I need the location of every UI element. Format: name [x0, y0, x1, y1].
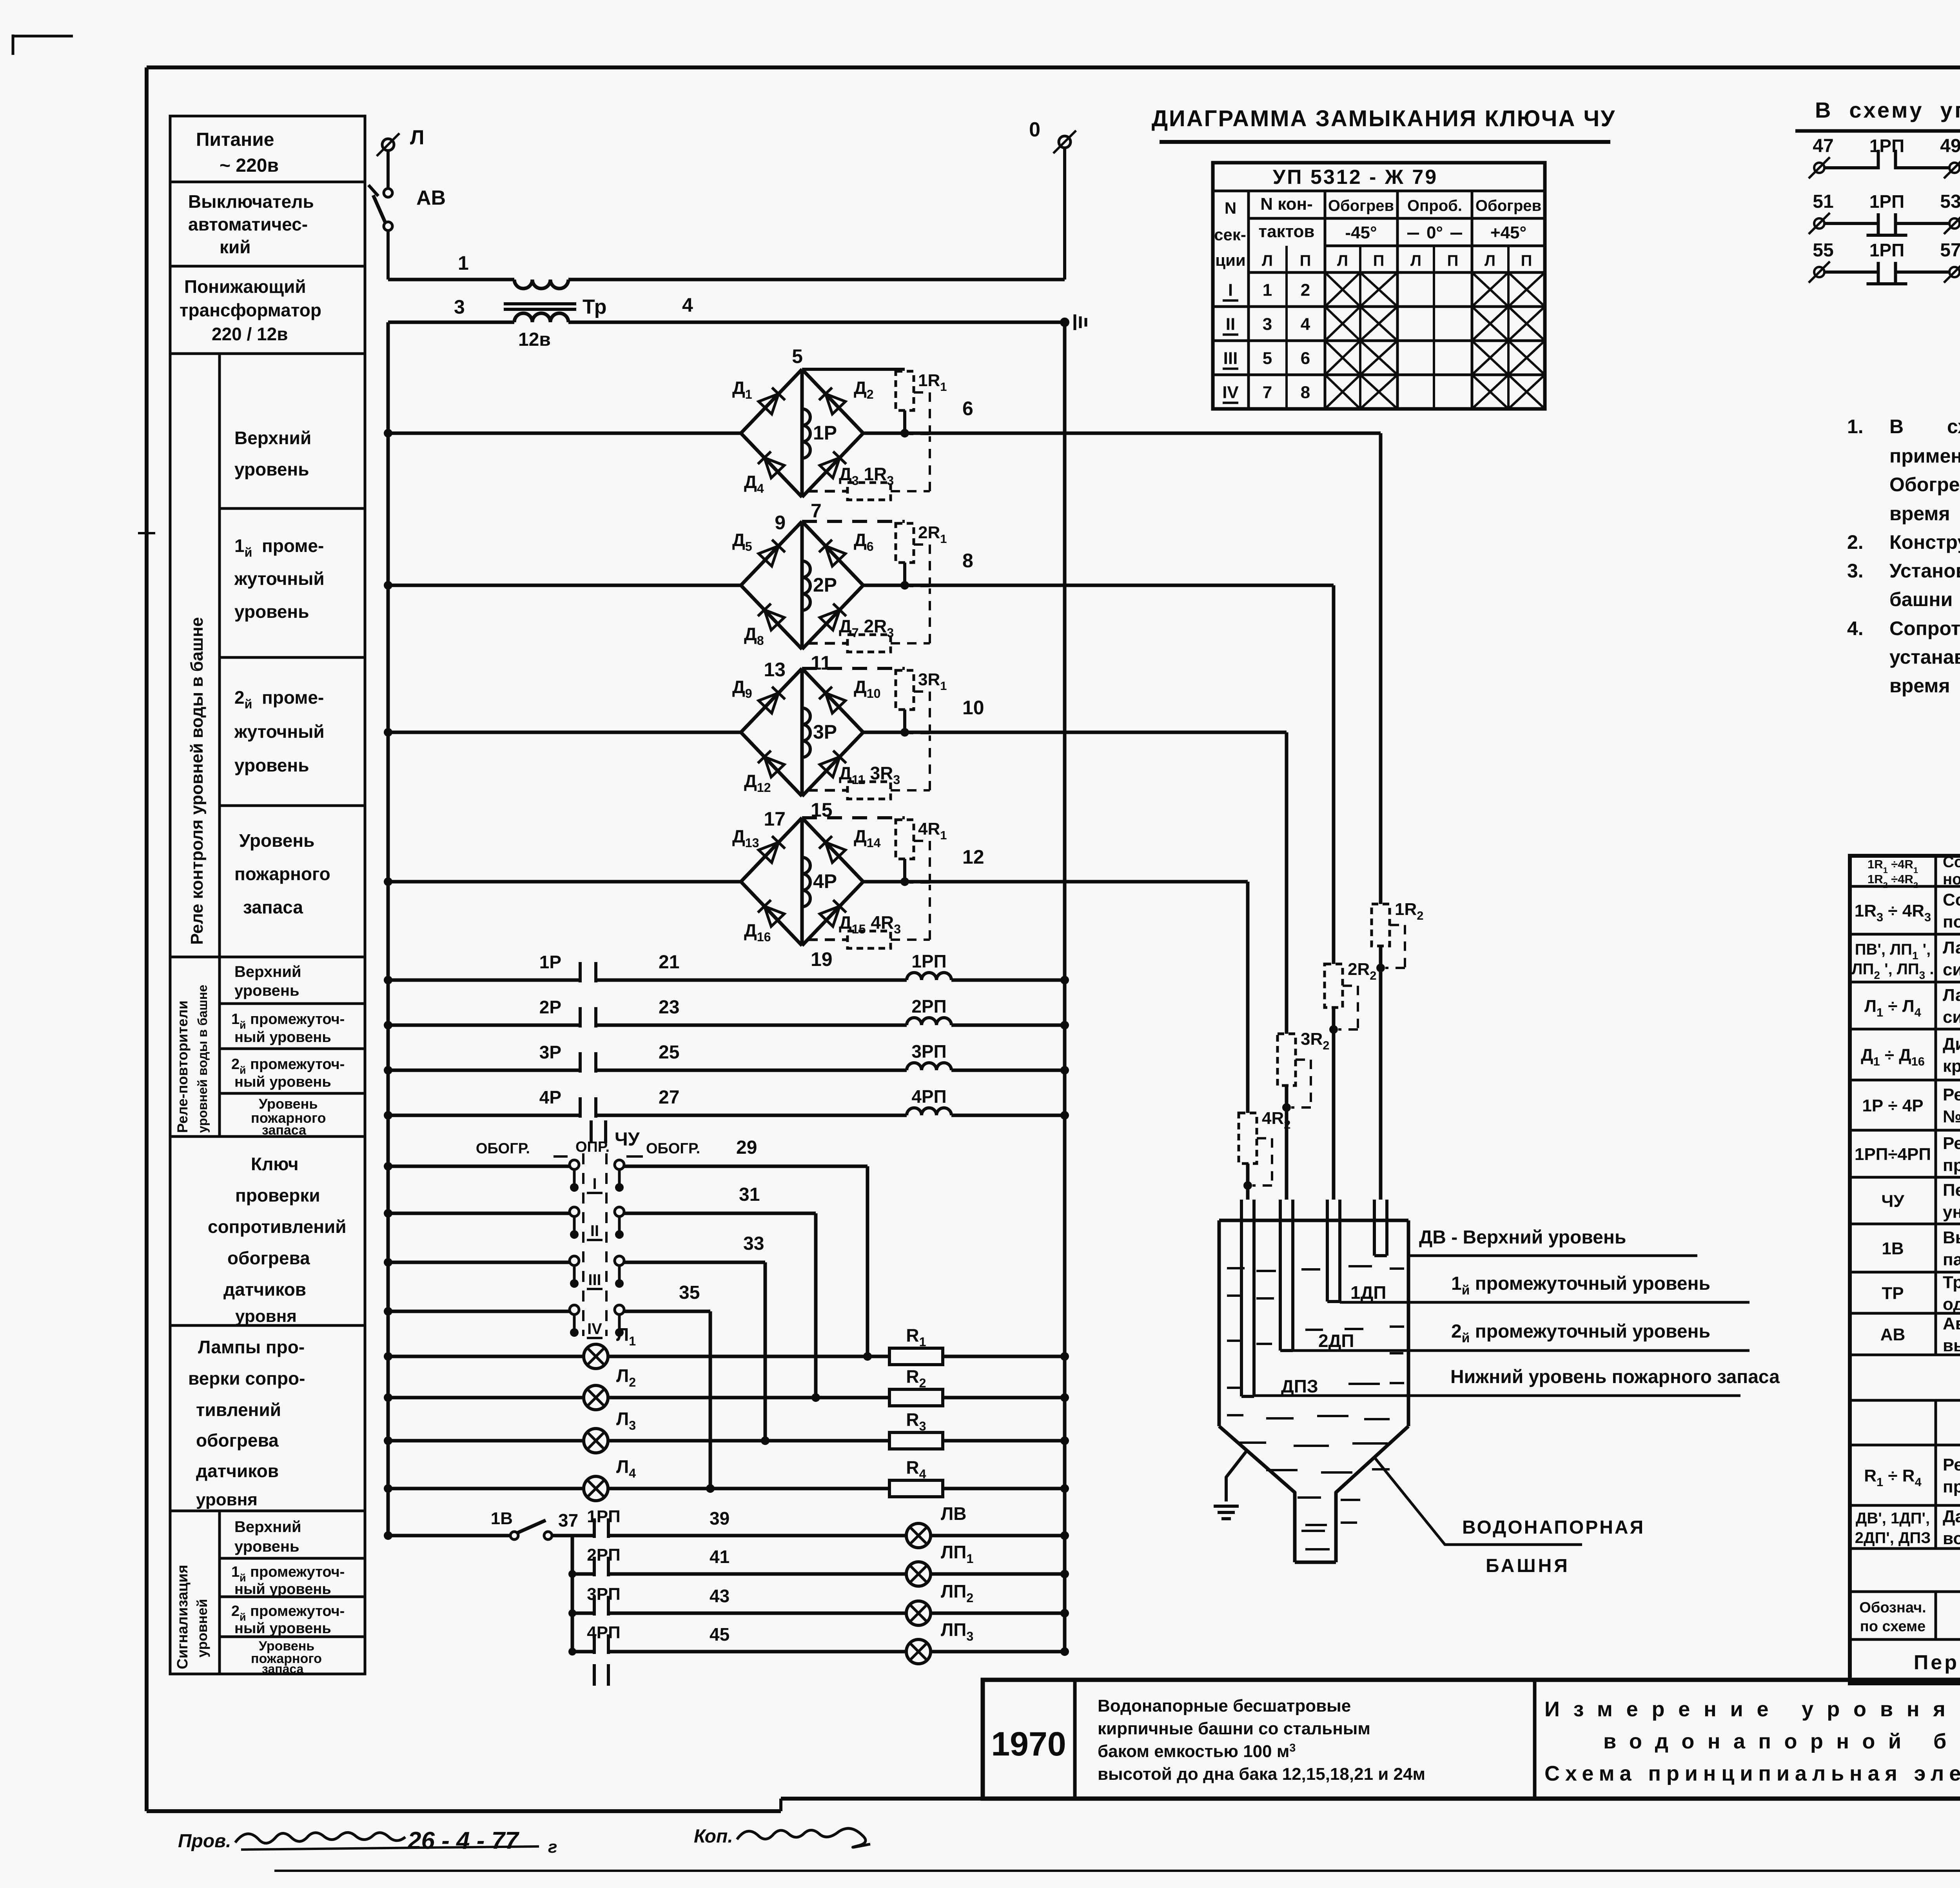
svg-text:11: 11 — [811, 652, 831, 674]
svg-text:трансформатор: трансформатор — [180, 300, 321, 320]
svg-text:1РП: 1РП — [1869, 240, 1904, 260]
svg-text:IV: IV — [1222, 383, 1239, 402]
svg-text:кирпичные башни со стальным: кирпичные башни со стальным — [1098, 1719, 1370, 1738]
svg-text:высотой до дна бака 12‚15‚18‚2: высотой до дна бака 12‚15‚18‚21 и 24м — [1098, 1765, 1425, 1784]
svg-text:1: 1 — [458, 252, 469, 274]
svg-text:обогрева: обогрева — [227, 1248, 310, 1268]
svg-text:2РП: 2РП — [587, 1545, 620, 1565]
svg-text:3.: 3. — [1847, 560, 1864, 582]
svg-text:сек-: сек- — [1214, 225, 1246, 244]
svg-text:Обогрев: Обогрев — [1328, 197, 1394, 214]
svg-text:сигнальная: сигнальная — [1943, 1008, 1960, 1027]
svg-text:49: 49 — [1940, 136, 1960, 156]
svg-text:Лампа: Лампа — [1943, 938, 1960, 957]
svg-text:Трансформатор: Трансформатор — [1943, 1273, 1960, 1292]
svg-text:уровень: уровень — [234, 601, 309, 622]
svg-text:Сопротивление перемен-: Сопротивление перемен- — [1943, 853, 1960, 871]
svg-text:Л: Л — [1485, 252, 1495, 269]
svg-text:3РП: 3РП — [911, 1041, 946, 1062]
svg-text:жуточный: жуточный — [234, 568, 325, 589]
svg-text:Сопротивление: Сопротивление — [1943, 890, 1960, 910]
svg-text:Реле-повторители: Реле-повторители — [174, 1000, 191, 1133]
svg-text:проволочный: проволочный — [1943, 1477, 1960, 1496]
svg-text:АВ: АВ — [1880, 1325, 1906, 1344]
svg-text:Ключ: Ключ — [251, 1154, 299, 1174]
svg-text:4РП: 4РП — [911, 1086, 946, 1107]
svg-text:ный уровень: ный уровень — [234, 1581, 331, 1598]
svg-text:датчиков: датчиков — [223, 1279, 306, 1300]
svg-text:26 - 4 - 77: 26 - 4 - 77 — [407, 1827, 519, 1854]
svg-text:Коп.: Коп. — [694, 1826, 733, 1847]
svg-text:ДИАГРАММА ЗАМЫКАНИЯ КЛЮЧА: ДИАГРАММА ЗАМЫКАНИЯ КЛЮЧА ЧУ — [1152, 106, 1616, 131]
svg-text:ТР: ТР — [1882, 1284, 1904, 1303]
svg-text:датчиков: датчиков — [196, 1461, 279, 1481]
svg-text:уровень: уровень — [234, 1538, 299, 1555]
svg-text:4.: 4. — [1847, 617, 1864, 639]
svg-text:1РП: 1РП — [587, 1507, 620, 1526]
svg-text:57: 57 — [1940, 240, 1960, 261]
svg-text:Верхний: Верхний — [234, 1518, 301, 1536]
svg-text:кий: кий — [220, 237, 251, 257]
svg-text:1Р: 1Р — [539, 952, 561, 972]
svg-text:уровней: уровней — [194, 1599, 210, 1657]
svg-text:Тр: Тр — [583, 296, 607, 318]
svg-text:Реле поляризованное: Реле поляризованное — [1943, 1085, 1960, 1104]
svg-text:0: 0 — [1029, 118, 1040, 141]
svg-text:ОБОГР.: ОБОГР. — [646, 1140, 700, 1157]
svg-text:Сопротивление показанные пункт: Сопротивление показанные пунктиром — [1889, 617, 1960, 639]
svg-text:постоянное: постоянное — [1943, 912, 1960, 931]
svg-text:5: 5 — [792, 345, 803, 367]
svg-text:13: 13 — [764, 659, 786, 681]
svg-text:41: 41 — [710, 1547, 730, 1567]
svg-text:башни см. черт. АВ-15.: башни см. черт. АВ-15. — [1889, 588, 1960, 610]
svg-text:1РП÷4РП: 1РП÷4РП — [1855, 1145, 1931, 1164]
svg-text:ДПЗ: ДПЗ — [1281, 1376, 1318, 1396]
svg-text:сигнальная: сигнальная — [1943, 960, 1960, 979]
svg-text:2.: 2. — [1847, 531, 1864, 553]
svg-text:Автоматический: Автоматический — [1943, 1314, 1960, 1333]
svg-text:31: 31 — [739, 1184, 760, 1205]
svg-text:Переключатель: Переключатель — [1943, 1181, 1960, 1200]
svg-text:45: 45 — [710, 1624, 730, 1645]
svg-text:Лампы про-: Лампы про- — [198, 1337, 305, 1357]
svg-text:35: 35 — [679, 1282, 700, 1303]
svg-text:УП 5312 - Ж 79: УП 5312 - Ж 79 — [1273, 166, 1438, 189]
svg-text:1РП: 1РП — [1869, 191, 1904, 212]
svg-text:I: I — [1228, 281, 1233, 300]
svg-text:ОБОГР.: ОБОГР. — [476, 1140, 530, 1157]
svg-text:3Р: 3Р — [813, 721, 837, 743]
svg-text:Уровень: Уровень — [259, 1096, 318, 1112]
svg-text:проме-: проме- — [262, 687, 324, 708]
svg-text:6: 6 — [1301, 349, 1310, 368]
svg-text:21: 21 — [659, 952, 679, 973]
svg-text:3: 3 — [1263, 315, 1272, 334]
svg-text:12: 12 — [962, 846, 984, 868]
svg-text:9: 9 — [775, 512, 786, 534]
svg-text:В схеме регулирования уровня в: В схеме регулирования уровня воды в башн… — [1889, 416, 1960, 438]
svg-text:Л: Л — [1337, 252, 1348, 269]
svg-text:Сигнализация: Сигнализация — [174, 1565, 191, 1669]
svg-text:ЛВ: ЛВ — [941, 1503, 967, 1524]
svg-text:ОПР.: ОПР. — [575, 1139, 610, 1155]
svg-text:Понижающий: Понижающий — [184, 276, 306, 297]
svg-text:Водонапорные бесшатровые: Водонапорные бесшатровые — [1098, 1696, 1351, 1716]
svg-text:23: 23 — [659, 997, 679, 1018]
svg-text:БАШНЯ: БАШНЯ — [1486, 1556, 1570, 1576]
svg-text:+45°: +45° — [1490, 223, 1526, 242]
svg-text:Обознач.: Обознач. — [1859, 1599, 1926, 1616]
svg-text:II: II — [590, 1222, 599, 1240]
svg-text:№ РС 4.521.004 Сп: № РС 4.521.004 Сп — [1943, 1107, 1960, 1126]
svg-text:запаса: запаса — [243, 897, 303, 917]
svg-text:запаса: запаса — [262, 1662, 304, 1676]
svg-text:Пров.: Пров. — [178, 1831, 231, 1852]
svg-text:ВОДОНАПОРНАЯ: ВОДОНАПОРНАЯ — [1462, 1517, 1645, 1538]
svg-text:39: 39 — [710, 1508, 730, 1529]
svg-text:уровень: уровень — [234, 982, 299, 999]
svg-text:43: 43 — [710, 1586, 730, 1606]
svg-text:Верхний: Верхний — [234, 428, 311, 448]
svg-text:II: II — [1226, 315, 1235, 334]
svg-text:проверки: проверки — [235, 1185, 320, 1205]
svg-text:Установку датчиков в баке водо: Установку датчиков в баке водонапорной — [1889, 560, 1960, 582]
svg-text:Уровень: Уровень — [239, 830, 314, 851]
svg-text:1й промежуточный уровень: 1й промежуточный уровень — [1451, 1273, 1710, 1298]
svg-text:ный уровень: ный уровень — [234, 1029, 331, 1046]
svg-text:ДВ - Верхний уровень: ДВ - Верхний уровень — [1419, 1227, 1626, 1248]
svg-text:Обогрев: Обогрев — [1475, 197, 1541, 214]
svg-text:Реле: Реле — [1943, 1134, 1960, 1153]
svg-text:53: 53 — [1940, 191, 1960, 212]
svg-text:Д3 1R3: Д3 1R3 — [839, 464, 894, 488]
svg-text:3Р: 3Р — [539, 1042, 561, 1062]
svg-text:7: 7 — [811, 500, 822, 522]
svg-text:27: 27 — [659, 1087, 679, 1108]
svg-text:220 / 12в: 220 / 12в — [212, 324, 288, 344]
svg-text:Опроб.: Опроб. — [1407, 197, 1462, 214]
svg-text:верки сопро-: верки сопро- — [188, 1368, 305, 1389]
svg-text:П: П — [1521, 252, 1532, 269]
svg-text:универсальный: универсальный — [1943, 1203, 1960, 1222]
svg-text:8: 8 — [962, 550, 973, 572]
svg-text:жуточный: жуточный — [234, 721, 325, 742]
svg-text:47: 47 — [1813, 136, 1833, 156]
svg-text:П: П — [1447, 252, 1459, 269]
svg-text:N кон-: N кон- — [1260, 194, 1313, 214]
svg-text:Верхний: Верхний — [234, 963, 301, 980]
svg-text:3: 3 — [454, 296, 465, 318]
svg-text:2РП: 2РП — [911, 996, 946, 1017]
svg-text:время резисторами R1 ÷ R4 .: время резисторами R1 ÷ R4 . — [1889, 503, 1960, 528]
svg-text:Реле контроля уровней во: Реле контроля уровней воды в башне — [187, 617, 207, 945]
svg-text:П: П — [1373, 252, 1385, 269]
svg-text:г: г — [548, 1837, 557, 1857]
svg-text:37: 37 — [558, 1510, 578, 1530]
svg-text:4Р: 4Р — [539, 1087, 561, 1107]
svg-text:сопротивлений: сопротивлений — [208, 1216, 347, 1237]
svg-text:уровня: уровня — [196, 1490, 258, 1509]
svg-text:Конструкцию датчика уровня см.: Конструкцию датчика уровня см. на черт. … — [1889, 531, 1960, 553]
svg-text:1Р ÷ 4Р: 1Р ÷ 4Р — [1862, 1096, 1923, 1115]
svg-text:6: 6 — [962, 398, 973, 419]
svg-text:устанавливаются при необходимо: устанавливаются при необходимости во — [1889, 646, 1960, 668]
svg-text:ДВ', 1ДП'‚: ДВ', 1ДП'‚ — [1856, 1510, 1930, 1527]
svg-text:1970: 1970 — [991, 1725, 1066, 1763]
svg-text:4РП: 4РП — [587, 1623, 620, 1642]
svg-text:кремниевый: кремниевый — [1943, 1057, 1960, 1076]
svg-text:3РП: 3РП — [587, 1585, 620, 1604]
svg-text:4: 4 — [1301, 315, 1310, 334]
svg-text:2ДП: 2ДП — [1318, 1331, 1354, 1351]
svg-text:1В: 1В — [1882, 1239, 1904, 1258]
svg-text:уровней воды в башне: уровней воды в башне — [195, 985, 210, 1133]
svg-text:1.: 1. — [1847, 416, 1864, 438]
svg-text:2й промежуточный уровень: 2й промежуточный уровень — [1451, 1321, 1710, 1345]
svg-text:Выключатель: Выключатель — [188, 191, 314, 212]
svg-text:автоматичес-: автоматичес- — [188, 214, 308, 234]
svg-text:25: 25 — [659, 1042, 679, 1063]
svg-text:применяются датчики уровня с о: применяются датчики уровня с обогревом. — [1889, 445, 1960, 467]
svg-text:-45°: -45° — [1345, 223, 1377, 242]
svg-text:51: 51 — [1813, 191, 1833, 212]
svg-text:время наладки.: время наладки. — [1889, 675, 1960, 697]
svg-text:ции: ции — [1215, 251, 1245, 269]
svg-text:П: П — [1300, 252, 1311, 269]
svg-text:4Р: 4Р — [813, 870, 837, 892]
svg-text:ЧУ: ЧУ — [1881, 1192, 1904, 1211]
svg-text:5: 5 — [1263, 349, 1272, 368]
svg-text:Обогрев датчиков производится: Обогрев датчиков производится в зимнее — [1889, 474, 1960, 496]
svg-text:тивлений: тивлений — [196, 1400, 281, 1420]
svg-text:I: I — [592, 1175, 597, 1193]
svg-text:пакетный: пакетный — [1943, 1250, 1960, 1269]
svg-text:55: 55 — [1813, 240, 1833, 261]
svg-text:воды в башне: воды в башне — [1943, 1529, 1960, 1548]
svg-text:1РП: 1РП — [1869, 136, 1904, 156]
svg-text:1Р: 1Р — [813, 422, 837, 444]
svg-text:уровень: уровень — [234, 459, 309, 479]
svg-text:0°: 0° — [1426, 223, 1443, 242]
svg-text:проме-: проме- — [262, 536, 324, 556]
svg-text:Выключатель: Выключатель — [1943, 1228, 1960, 1247]
svg-text:1ДП: 1ДП — [1350, 1282, 1386, 1303]
svg-text:4: 4 — [682, 294, 693, 316]
svg-text:17: 17 — [764, 808, 786, 830]
svg-text:ный уровень: ный уровень — [234, 1620, 331, 1637]
svg-text:Перечень: Перечень — [1914, 1651, 1960, 1674]
svg-text:ное , непров.: ное , непров. — [1943, 871, 1960, 888]
svg-text:баком емкостью 100 м3: баком емкостью 100 м3 — [1098, 1742, 1296, 1761]
svg-text:1: 1 — [1263, 281, 1272, 300]
svg-text:Питание: Питание — [196, 129, 274, 150]
svg-text:уровень: уровень — [234, 755, 309, 775]
svg-text:по схеме: по схеме — [1860, 1618, 1926, 1635]
svg-text:однофазный: однофазный — [1943, 1295, 1960, 1314]
svg-text:8: 8 — [1301, 383, 1310, 402]
svg-text:2: 2 — [1301, 281, 1310, 300]
svg-text:10: 10 — [962, 697, 984, 719]
svg-text:уровня: уровня — [235, 1307, 297, 1326]
svg-text:Лампа: Лампа — [1943, 986, 1960, 1005]
svg-text:Д7 2R3: Д7 2R3 — [839, 616, 894, 640]
svg-text:III: III — [588, 1271, 601, 1289]
svg-text:Нижний уровень пожарного за: Нижний уровень пожарного запаса — [1450, 1367, 1780, 1387]
svg-text:IV: IV — [587, 1320, 602, 1338]
svg-text:1РП: 1РП — [911, 951, 946, 971]
svg-text:промежуточное: промежуточное — [1943, 1156, 1960, 1175]
svg-text:АВ: АВ — [416, 187, 446, 209]
svg-text:2Р: 2Р — [813, 574, 837, 596]
svg-text:7: 7 — [1263, 383, 1272, 402]
svg-text:19: 19 — [811, 948, 833, 970]
svg-text:Диод: Диод — [1943, 1035, 1960, 1054]
svg-text:~ 220в: ~ 220в — [220, 155, 279, 176]
svg-text:пожарного: пожарного — [234, 864, 330, 884]
svg-text:2Р: 2Р — [539, 997, 561, 1017]
svg-text:Л: Л — [1262, 252, 1273, 269]
svg-text:12в: 12в — [518, 329, 551, 350]
svg-text:ный уровень: ный уровень — [234, 1074, 331, 1090]
svg-text:N: N — [1225, 199, 1236, 217]
svg-text:обогрева: обогрева — [196, 1430, 279, 1450]
svg-text:III: III — [1223, 349, 1238, 368]
svg-text:29: 29 — [736, 1137, 757, 1158]
svg-text:Л: Л — [1410, 252, 1421, 269]
svg-text:тактов: тактов — [1259, 222, 1315, 241]
svg-text:2ДП', ДПЗ: 2ДП', ДПЗ — [1855, 1529, 1931, 1547]
svg-text:33: 33 — [743, 1233, 764, 1254]
svg-text:Л: Л — [410, 126, 425, 149]
svg-text:Резистор: Резистор — [1943, 1455, 1960, 1474]
svg-text:выключатель: выключатель — [1943, 1336, 1960, 1355]
svg-text:1В: 1В — [491, 1509, 513, 1528]
svg-text:Датчики уровня: Датчики уровня — [1943, 1507, 1960, 1526]
svg-text:ЧУ: ЧУ — [615, 1129, 640, 1150]
